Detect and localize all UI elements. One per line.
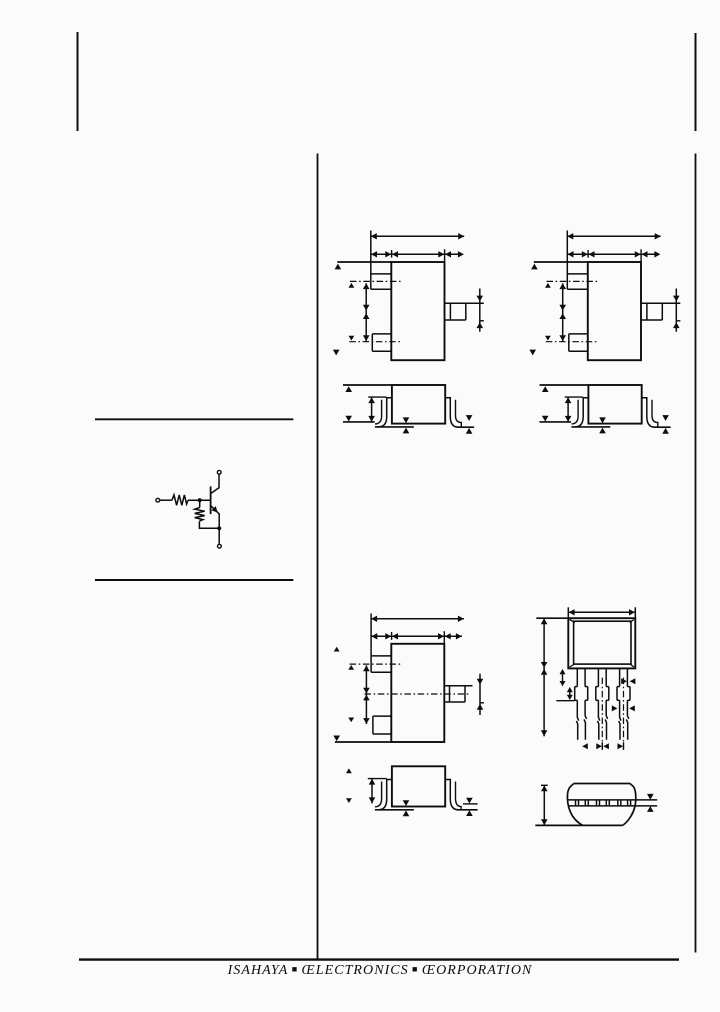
lead 3 center line (front view) bbox=[623, 678, 625, 743]
right lead upper extension (power) bbox=[463, 803, 478, 805]
seating plane extension (side view) bbox=[343, 421, 375, 423]
arrow body-bottom (power) bbox=[333, 736, 340, 742]
lead 1 (upper left pin, power top view) bbox=[371, 655, 391, 657]
arrow body-top (power) bbox=[334, 647, 340, 652]
overall width dimension (front view) bbox=[568, 611, 635, 613]
arrow lead 2 (power) bbox=[348, 718, 354, 723]
arrow body-top bbox=[335, 264, 342, 270]
arrow at lead 2 center bbox=[349, 336, 355, 341]
arrow lead 1 center (power) bbox=[348, 665, 354, 670]
right gull-wing lead inner edge (power) bbox=[456, 782, 462, 810]
lead plane lines (bottom view) bbox=[568, 799, 657, 801]
wire R2 bottom to emitter node bbox=[199, 521, 219, 528]
body height dimension (bottom view) bbox=[543, 785, 545, 825]
tick body right (power) bbox=[443, 631, 445, 644]
right gull-wing lead outer edge (power) bbox=[445, 780, 458, 810]
lead 1 center line bbox=[350, 280, 401, 282]
standoff arrows (power side) bbox=[403, 800, 410, 816]
package center line (power) bbox=[365, 693, 469, 695]
lead 3 width dimension bbox=[479, 289, 481, 332]
lead height dimension (side view) bbox=[371, 397, 373, 422]
wire input to R1 bbox=[160, 499, 172, 501]
right gull-wing lead outer edge bbox=[445, 398, 458, 427]
right lead thickness arrows (power) bbox=[466, 798, 473, 816]
terminal OUT (collector pin circle) bbox=[217, 470, 221, 474]
lead 3 (front view) bbox=[619, 668, 621, 686]
lead 1 (upper left pin, top view) bbox=[371, 273, 392, 275]
lead 3 cross-section (bottom view) bbox=[617, 800, 619, 806]
left lead foot / seating line (power) bbox=[375, 809, 414, 811]
left gull-wing lead outer edge bbox=[379, 398, 392, 427]
seating baseline (bottom view) bbox=[535, 824, 623, 826]
crimp extension line bbox=[556, 700, 574, 702]
body width dimension line bbox=[371, 253, 462, 255]
lead 1 cross-section (bottom view) bbox=[575, 800, 577, 806]
lead 2 center line (front view) bbox=[601, 678, 603, 743]
lead 3 lower extension tick bbox=[480, 320, 484, 322]
arrow body-bottom bbox=[333, 350, 340, 356]
neck length dimension bbox=[562, 671, 564, 684]
transistor Q1 collector stroke bbox=[211, 474, 219, 493]
transistor Q1 base bar bbox=[210, 486, 212, 514]
right gull-wing lead inner edge bbox=[456, 400, 462, 427]
lead thickness arrows (bottom view) bbox=[647, 794, 654, 812]
lead pitch dimension line bbox=[365, 283, 367, 341]
transistor Q1 emitter arrowhead bbox=[211, 506, 217, 512]
right lead foot / seating line (power) bbox=[457, 809, 478, 811]
lead pitch dimensions (front view bottom) bbox=[601, 742, 603, 750]
right lead foot / seating line bbox=[457, 426, 474, 428]
crimp length dimension bbox=[569, 689, 571, 698]
resistor R1 (series base resistor, zigzag) bbox=[172, 495, 188, 505]
crimp width dimension (lower right) bbox=[612, 705, 635, 711]
wire R1 to base node bbox=[188, 499, 211, 501]
body top extension (side view) bbox=[343, 384, 392, 386]
lead height dimension (power side) bbox=[371, 779, 373, 804]
left gull-wing lead inner edge bbox=[375, 400, 382, 424]
left gull-wing lead outer edge (power) bbox=[379, 780, 392, 810]
wire emitter node to output terminal bbox=[218, 528, 220, 544]
footer company name bbox=[20, 963, 720, 979]
left gull-wing lead inner edge (power) bbox=[375, 782, 382, 807]
lead 3 width dimension (power) bbox=[479, 674, 481, 715]
lead 1 (front view) bbox=[576, 668, 578, 686]
node B (base junction dot) bbox=[198, 498, 202, 502]
body top extension line bbox=[337, 261, 391, 263]
package drawing copy (second SC-59 top & side view) bbox=[529, 231, 680, 434]
lead 3 (right pin, power top view) bbox=[444, 685, 472, 687]
arrow at lead 1 center bbox=[349, 283, 355, 288]
arrow power-side top bbox=[346, 768, 352, 773]
terminal IN (input pin circle) bbox=[156, 498, 160, 502]
standoff dimension arrows bbox=[403, 417, 410, 433]
lead pitch dimension (power) bbox=[365, 665, 367, 724]
body width dimension line (power) bbox=[371, 635, 462, 637]
lead 2 (lower left pin, power top view) bbox=[373, 715, 391, 717]
overall width dimension (power) bbox=[371, 618, 464, 620]
lead 2 cross-section (bottom view) bbox=[596, 800, 598, 806]
left lead foot / seating line bbox=[375, 426, 414, 428]
lead 1 extension line bbox=[370, 231, 372, 290]
body top extension (front view) bbox=[536, 617, 568, 619]
package body outline (side view) bbox=[392, 385, 445, 424]
node E (emitter junction dot) bbox=[217, 526, 221, 530]
lead 2 center line bbox=[349, 341, 401, 343]
overall width dimension bbox=[371, 235, 464, 237]
wire base node down to R2 bbox=[199, 500, 201, 507]
package body outline (top view) bbox=[391, 262, 444, 360]
lead 3 (right pin, top view) bbox=[445, 302, 484, 304]
lead width dimension (upper right) bbox=[621, 678, 635, 684]
body frame corner chamfers (front view) bbox=[570, 620, 575, 623]
package body outline (power side view) bbox=[392, 766, 445, 806]
arrow power-side bottom bbox=[346, 798, 352, 803]
arrow side body-top bbox=[345, 386, 352, 392]
height dimension (front view) bbox=[543, 618, 545, 736]
lead 1 extension line (power) bbox=[370, 614, 372, 673]
package outline (bottom view) bbox=[574, 783, 630, 785]
package body outer outline (front view) bbox=[568, 618, 635, 668]
body bottom extension (power) bbox=[335, 741, 391, 743]
lead 1 center line (power) bbox=[350, 663, 401, 665]
package body inner outline (front view) bbox=[574, 621, 631, 664]
lead 2 (front view) bbox=[597, 668, 599, 686]
dimension tick at body left edge bbox=[391, 250, 393, 258]
resistor R2 (base-emitter resistor, zigzag) bbox=[195, 508, 205, 522]
tick body left (power) bbox=[391, 632, 393, 640]
terminal E (emitter pin circle) bbox=[218, 544, 222, 548]
arrow side seating bbox=[345, 416, 352, 422]
dimension tick at body right edge bbox=[444, 249, 446, 262]
transistor Q1 emitter stroke bbox=[211, 506, 220, 529]
lead 3 tick (power) bbox=[480, 702, 484, 704]
lead 2 (lower left pin, top view) bbox=[372, 333, 391, 335]
package body outline (power top view) bbox=[391, 644, 444, 742]
right lead thickness arrows bbox=[466, 415, 473, 434]
